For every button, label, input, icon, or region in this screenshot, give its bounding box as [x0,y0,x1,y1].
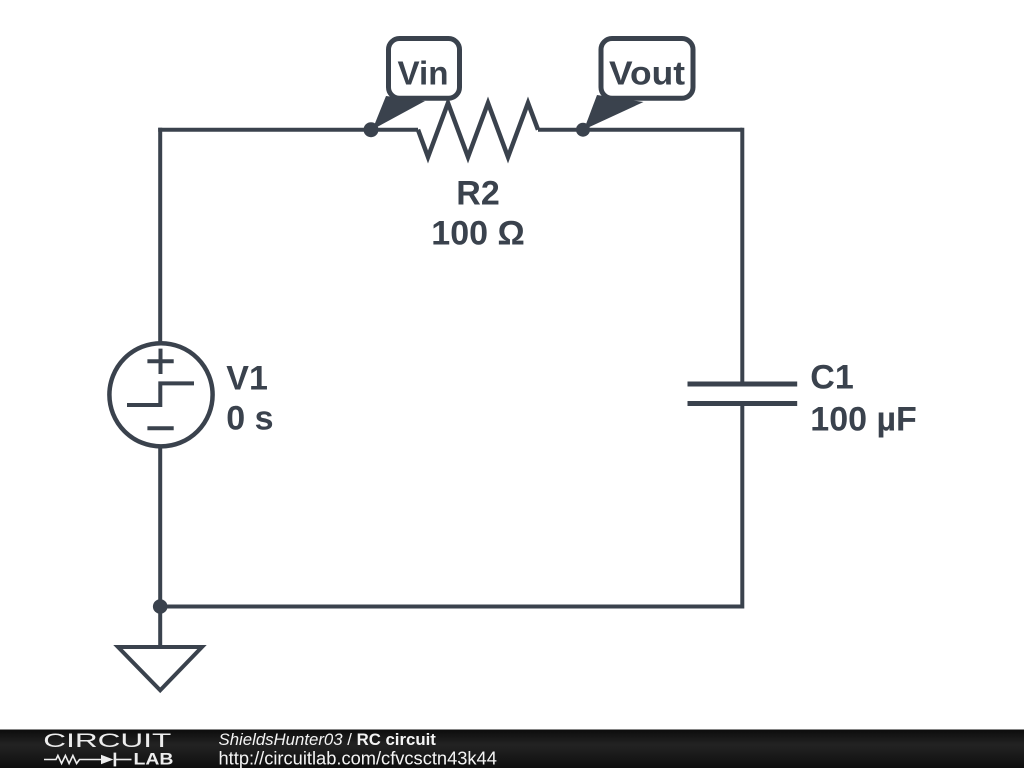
wire: right vertical from C1 bottom plate to bottom rail [740,404,744,609]
svg-text:ShieldsHunter03 / RC circuit: ShieldsHunter03 / RC circuit [219,730,437,749]
svg-text:Vin: Vin [398,54,449,91]
capacitor C1 top plate [688,382,798,387]
node Vin flag box [389,39,460,99]
resistor R2 zigzag [418,103,538,157]
svg-text:http://circuitlab.com/cfvcsctn: http://circuitlab.com/cfvcsctn43k44 [219,748,497,768]
node Vout flag box [601,39,693,99]
wire: bottom rail [160,605,742,609]
svg-text:Vout: Vout [609,54,685,91]
wire: top rail left segment (Vin node to resistor) [158,128,418,132]
ground symbol [118,647,202,690]
wire: ground stub [158,607,162,648]
svg-text:C1: C1 [810,359,853,397]
wire: right vertical from top corner to C1 top plate [740,128,744,384]
V1 plus sign [147,349,173,374]
junction dot at ground node [153,599,168,614]
node Vout flag pointer [584,95,644,130]
V1 minus sign [147,426,173,430]
svg-text:LAB: LAB [134,750,174,768]
footer bar [0,730,1024,768]
svg-text:100 Ω: 100 Ω [431,214,524,252]
wire: left vertical from top corner to V1 top [158,128,162,344]
svg-text:0 s: 0 s [226,399,273,437]
wire: top rail right segment (resistor to Vout node to top-right corner) [538,128,742,132]
svg-text:R2: R2 [456,174,499,212]
CircuitLab logo: diode [101,755,114,764]
svg-text:100 µF: 100 µF [810,400,917,438]
svg-text:CIRCUIT: CIRCUIT [43,731,172,752]
wire: left vertical from V1 bottom to bottom rail [158,446,162,607]
V1 step waveform [127,383,194,405]
voltage source V1 circle [109,343,212,446]
junction dot at Vout node [576,123,590,137]
node Vin flag pointer [373,96,426,130]
capacitor C1 bottom plate [688,401,798,406]
junction dot at Vin node [364,122,379,137]
svg-text:V1: V1 [226,360,268,398]
CircuitLab logo: schematic wire with resistor [44,756,101,764]
